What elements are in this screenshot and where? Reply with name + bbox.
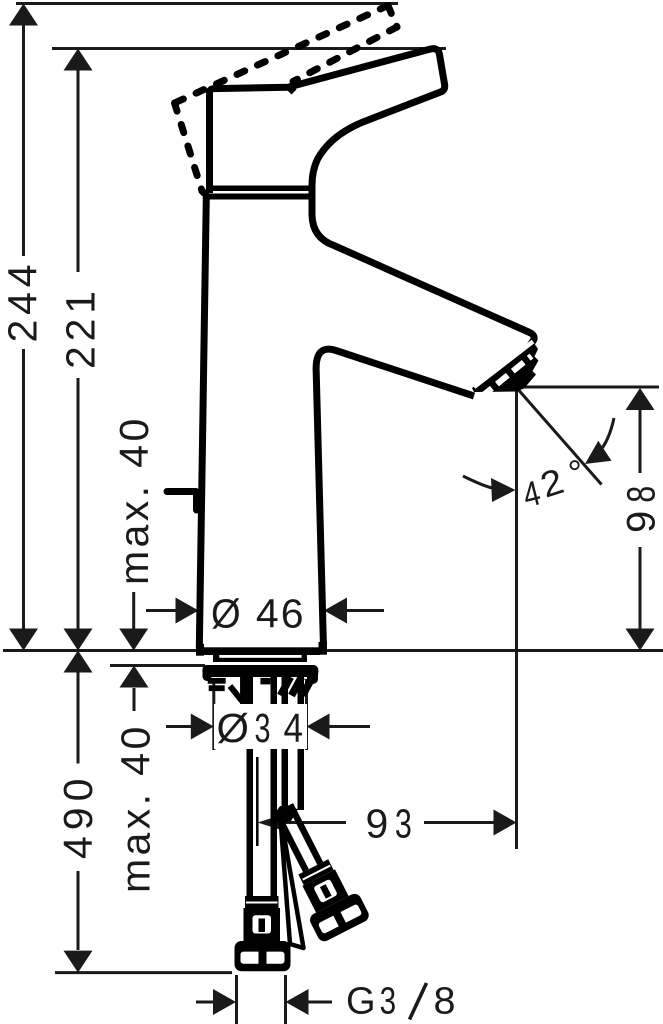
svg-text:244: 244 <box>0 260 46 343</box>
svg-text:8: 8 <box>434 981 456 1023</box>
svg-text:max. 40: max. 40 <box>111 415 157 585</box>
svg-text:Ø34: Ø34 <box>217 705 304 751</box>
svg-text:max. 40: max. 40 <box>113 723 159 893</box>
svg-text:221: 221 <box>58 286 104 369</box>
svg-text:490: 490 <box>55 773 101 859</box>
svg-text:Ø 46: Ø 46 <box>211 591 306 637</box>
svg-text:G3: G3 <box>346 981 396 1023</box>
